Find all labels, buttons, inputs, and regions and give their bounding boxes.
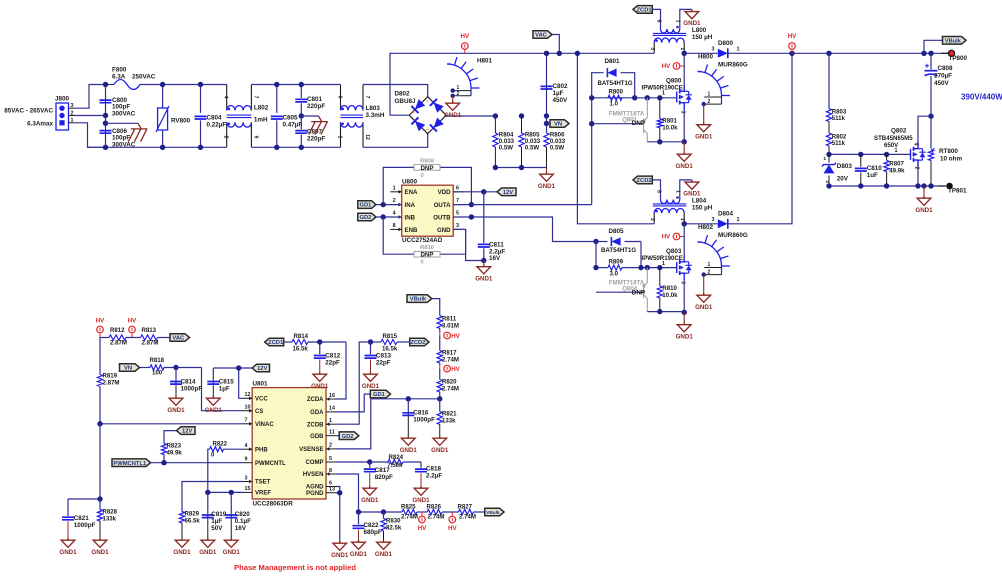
svg-text:16: 16 bbox=[329, 393, 335, 399]
svg-text:INB: INB bbox=[405, 215, 416, 222]
wire drain rail L804 to D804 bbox=[684, 223, 718, 225]
capacitor C800 bbox=[105, 85, 107, 99]
net flag GD1 input bbox=[358, 201, 376, 209]
svg-text:ZCDA: ZCDA bbox=[307, 397, 324, 403]
svg-text:1: 1 bbox=[737, 47, 740, 53]
pin stubs U801 left bbox=[243, 397, 252, 399]
inductor L804 main pins bbox=[653, 213, 655, 224]
resistor R809 bbox=[595, 242, 597, 268]
HV indicator VSENSE 2 bbox=[439, 365, 441, 369]
svg-text:220pF: 220pF bbox=[307, 103, 325, 110]
svg-text:12V: 12V bbox=[257, 366, 267, 372]
svg-text:3.01M: 3.01M bbox=[442, 323, 459, 330]
ground GND1 C818 bbox=[414, 486, 428, 495]
svg-text:C804: C804 bbox=[207, 115, 223, 122]
svg-text:GND1: GND1 bbox=[173, 549, 191, 556]
svg-text:9: 9 bbox=[252, 136, 258, 139]
svg-text:HV: HV bbox=[788, 33, 797, 40]
svg-text:8: 8 bbox=[329, 468, 332, 474]
svg-text:0.5W: 0.5W bbox=[525, 145, 539, 152]
pin stubs U800 right bbox=[453, 191, 464, 193]
svg-text:GND1: GND1 bbox=[444, 112, 462, 119]
svg-text:150 µH: 150 µH bbox=[692, 34, 713, 41]
HV indicator on output rail bbox=[791, 50, 793, 54]
svg-text:PGND: PGND bbox=[306, 491, 324, 497]
ground GND1 Q800 source bbox=[683, 142, 685, 152]
earth ground at C800/C806 node bbox=[106, 122, 139, 124]
svg-text:1: 1 bbox=[675, 20, 681, 23]
top rail L802 to L803 bbox=[251, 84, 340, 86]
svg-text:VN: VN bbox=[124, 366, 132, 372]
wire J800 pin2 to C800/C806 node bbox=[69, 115, 75, 117]
svg-text:50V: 50V bbox=[211, 525, 223, 532]
svg-text:GND1: GND1 bbox=[205, 407, 223, 414]
svg-text:H802: H802 bbox=[698, 224, 714, 231]
ground GND1 C813 bbox=[364, 372, 378, 381]
svg-text:1: 1 bbox=[737, 217, 740, 223]
svg-text:D801: D801 bbox=[604, 58, 620, 65]
svg-text:VCC: VCC bbox=[255, 397, 268, 403]
transistor Q804 (DNP) bbox=[596, 268, 647, 312]
wire ZCDB bbox=[336, 342, 371, 424]
wire source bus phase2 bbox=[647, 311, 684, 313]
svg-text:1µF: 1µF bbox=[553, 90, 564, 97]
capacitor C813 bbox=[370, 342, 372, 354]
svg-text:UCC28063DR: UCC28063DR bbox=[253, 500, 294, 507]
capacitor C816 bbox=[407, 399, 409, 411]
svg-text:R810: R810 bbox=[662, 285, 677, 292]
svg-text:VAC: VAC bbox=[535, 33, 548, 39]
ground GND1 C815 bbox=[207, 396, 221, 405]
svg-text:GND1: GND1 bbox=[676, 333, 694, 340]
svg-text:PWMCNTL: PWMCNTL bbox=[255, 461, 286, 467]
svg-text:VAC: VAC bbox=[172, 336, 185, 342]
svg-text:133k: 133k bbox=[442, 418, 456, 425]
gate driver U800 UCC27524AD bbox=[402, 185, 454, 236]
resistor R830 bbox=[383, 512, 385, 519]
svg-text:0: 0 bbox=[420, 260, 423, 266]
svg-text:7.50k: 7.50k bbox=[387, 462, 403, 469]
svg-text:650V: 650V bbox=[884, 142, 899, 149]
svg-text:0.22µF: 0.22µF bbox=[207, 122, 227, 129]
svg-text:2: 2 bbox=[393, 198, 396, 204]
bridge rectifier D802 bbox=[409, 97, 446, 134]
svg-text:1uF: 1uF bbox=[867, 172, 878, 179]
HV indicator VSENSE 1 bbox=[439, 332, 441, 336]
net flag PWMCNTL1 bbox=[112, 459, 151, 467]
svg-text:C815: C815 bbox=[219, 379, 235, 386]
svg-text:GND1: GND1 bbox=[167, 407, 185, 414]
resistor R811 bbox=[437, 316, 442, 329]
svg-text:5: 5 bbox=[456, 211, 459, 217]
svg-text:GND1: GND1 bbox=[538, 183, 556, 190]
inductor L802 bbox=[226, 85, 228, 111]
inductor L804 core bbox=[653, 204, 687, 206]
svg-text:F800: F800 bbox=[112, 67, 127, 74]
svg-text:C805: C805 bbox=[283, 115, 299, 122]
HV indicator at Q800 drain bbox=[673, 63, 680, 70]
inductor L800 main winding bbox=[654, 38, 684, 43]
svg-text:R814: R814 bbox=[294, 333, 309, 340]
svg-text:R823: R823 bbox=[167, 443, 182, 450]
gate drive net OUTB into D805/R809 bbox=[593, 239, 598, 244]
svg-text:450V: 450V bbox=[934, 80, 950, 87]
svg-text:OUTA: OUTA bbox=[434, 202, 451, 209]
wire J800 pin3 to top rail bbox=[69, 107, 75, 109]
ground GND1 U800 bbox=[483, 261, 485, 265]
capacitor C805 bbox=[276, 85, 278, 113]
svg-text:VDD: VDD bbox=[438, 189, 451, 196]
resistor R826 bbox=[427, 509, 442, 514]
svg-text:R824: R824 bbox=[389, 454, 404, 461]
capacitor C822 bbox=[358, 512, 360, 524]
svg-text:GND: GND bbox=[437, 227, 451, 234]
svg-text:22pF: 22pF bbox=[325, 360, 340, 367]
diode D805 BAT54HT1G bbox=[596, 241, 608, 243]
wire HV divider down to R828 bbox=[99, 424, 101, 499]
svg-text:VN: VN bbox=[554, 122, 562, 128]
wire Q800 source to ground bbox=[683, 109, 685, 142]
ground GND1 C822 bbox=[352, 540, 366, 549]
svg-text:HV: HV bbox=[128, 318, 137, 325]
pin stubs U800 left bbox=[390, 191, 401, 193]
svg-text:2: 2 bbox=[223, 136, 229, 139]
resistor R820 bbox=[439, 369, 441, 380]
svg-text:49.9k: 49.9k bbox=[889, 167, 905, 174]
ground GND1 C821 bbox=[61, 538, 75, 547]
svg-text:U800: U800 bbox=[402, 178, 418, 185]
varistor RV800 bbox=[162, 85, 164, 109]
resistor R821 bbox=[439, 399, 441, 412]
inductor L803 bbox=[340, 85, 342, 111]
output ground bus bbox=[829, 185, 945, 187]
heatsink H800 bbox=[698, 72, 722, 96]
svg-text:GND1: GND1 bbox=[475, 275, 493, 282]
svg-text:10.0k: 10.0k bbox=[662, 124, 678, 131]
svg-text:HV: HV bbox=[418, 525, 427, 532]
bottom rail to L802 bbox=[88, 146, 227, 148]
testpoint TP800 bbox=[941, 52, 948, 54]
inductor L804 sense winding ground pin bbox=[680, 180, 692, 200]
wire 12V to VCC and C815 bbox=[213, 368, 252, 398]
svg-text:12: 12 bbox=[364, 134, 370, 140]
svg-text:GND1: GND1 bbox=[676, 163, 694, 170]
ground GND1 R829 bbox=[175, 538, 189, 547]
ground GND1 heatsink H801 bbox=[452, 96, 454, 101]
svg-text:C802: C802 bbox=[553, 83, 569, 90]
svg-text:H800: H800 bbox=[698, 54, 714, 61]
wire HVSEN bbox=[336, 474, 359, 512]
ground GND1 heatsink H802 bbox=[703, 275, 705, 293]
svg-text:ZCD1: ZCD1 bbox=[268, 340, 284, 346]
ground GND1 R821 bbox=[433, 436, 447, 445]
resistor R810 bbox=[659, 268, 661, 286]
svg-text:10.0k: 10.0k bbox=[662, 292, 678, 299]
ground GND1 C819 bbox=[201, 538, 215, 547]
svg-text:R829: R829 bbox=[185, 511, 200, 518]
net flag 12V VCC bbox=[252, 364, 269, 372]
wire C808 to Q802 drain bbox=[928, 114, 933, 119]
svg-text:HV: HV bbox=[662, 234, 671, 241]
svg-text:12V: 12V bbox=[503, 190, 513, 196]
HV rail segment to L800 bbox=[465, 52, 654, 54]
svg-text:7: 7 bbox=[252, 96, 258, 99]
svg-text:6: 6 bbox=[456, 185, 459, 191]
net flag GD1 output bbox=[370, 390, 390, 398]
inductor L800 main pins bbox=[653, 43, 655, 54]
svg-text:2.2µF: 2.2µF bbox=[426, 473, 442, 480]
svg-text:DNP: DNP bbox=[632, 120, 645, 127]
svg-text:VBulk: VBulk bbox=[945, 38, 962, 44]
svg-text:16.5k: 16.5k bbox=[382, 346, 398, 353]
net flag ZCD2 bbox=[633, 176, 652, 184]
ground GND1 R830 bbox=[377, 540, 391, 549]
svg-text:~: ~ bbox=[426, 128, 429, 134]
svg-text:GD1: GD1 bbox=[373, 392, 386, 398]
svg-text:511k: 511k bbox=[832, 140, 846, 147]
resistor R805 bbox=[521, 116, 523, 133]
svg-text:1µF: 1µF bbox=[211, 518, 222, 525]
capacitor C806 bbox=[105, 116, 107, 129]
capacitor C820 bbox=[230, 492, 232, 513]
diode D804 MUR860G bbox=[718, 219, 728, 228]
HV indicator R812 divider bbox=[97, 326, 104, 333]
svg-text:GD2: GD2 bbox=[342, 434, 354, 440]
svg-text:D805: D805 bbox=[608, 228, 624, 235]
svg-text:D804: D804 bbox=[718, 211, 734, 218]
svg-text:133k: 133k bbox=[103, 516, 117, 523]
capacitor C821 bbox=[68, 498, 100, 500]
svg-text:1: 1 bbox=[393, 185, 396, 191]
MOSFET Q802 STB45N65M5 bbox=[911, 142, 926, 166]
resistor R812 bbox=[99, 333, 101, 337]
resistor R815 bbox=[371, 341, 382, 343]
svg-text:6: 6 bbox=[337, 96, 343, 99]
svg-text:6: 6 bbox=[656, 20, 662, 23]
svg-text:R816: R816 bbox=[420, 245, 435, 251]
svg-text:COMP: COMP bbox=[306, 460, 324, 466]
svg-text:2: 2 bbox=[708, 99, 711, 105]
svg-text:1: 1 bbox=[329, 418, 332, 424]
svg-text:BAT54HT1G: BAT54HT1G bbox=[598, 80, 633, 87]
ground GND1 heatsink H800 bbox=[703, 104, 705, 122]
svg-text:2: 2 bbox=[708, 270, 711, 276]
resistor R825 bbox=[402, 509, 417, 514]
svg-text:L803: L803 bbox=[366, 105, 381, 112]
svg-text:66.5k: 66.5k bbox=[185, 518, 201, 525]
heatsink H801 pins bbox=[470, 88, 472, 96]
wire Q803 source to ground bbox=[683, 280, 685, 313]
net flag VAC bottom bbox=[170, 334, 190, 342]
svg-text:0.5W: 0.5W bbox=[499, 145, 513, 152]
svg-text:C818: C818 bbox=[426, 466, 442, 473]
resistor R813 bbox=[132, 337, 141, 339]
svg-text:TSET: TSET bbox=[255, 480, 271, 486]
inductor L800 sense winding ground pin bbox=[680, 9, 692, 29]
svg-text:2: 2 bbox=[457, 91, 460, 97]
svg-text:R828: R828 bbox=[103, 509, 118, 516]
svg-text:MUR860G: MUR860G bbox=[718, 62, 748, 69]
svg-text:GD2: GD2 bbox=[359, 215, 371, 221]
ground GND1 C812 bbox=[313, 372, 327, 381]
svg-text:HV: HV bbox=[96, 318, 105, 325]
net 12V at U800 VDD bbox=[453, 191, 497, 193]
net flag VBulk top bbox=[924, 40, 943, 53]
resistor R827 bbox=[459, 509, 474, 514]
capacitor C817 bbox=[369, 462, 371, 468]
svg-text:8: 8 bbox=[393, 223, 396, 229]
svg-text:1: 1 bbox=[679, 218, 685, 221]
svg-text:GND1: GND1 bbox=[375, 551, 393, 558]
wire VINAC line bbox=[100, 423, 243, 425]
wire phase2 output to HV rail riser bbox=[728, 53, 792, 224]
svg-text:300VAC: 300VAC bbox=[112, 141, 136, 148]
svg-text:1: 1 bbox=[675, 190, 681, 193]
svg-text:0.1µF: 0.1µF bbox=[235, 518, 251, 525]
diode D801 BAT54HT1G bbox=[592, 73, 635, 98]
svg-text:VBulk: VBulk bbox=[410, 297, 427, 303]
svg-text:150 µH: 150 µH bbox=[692, 204, 713, 211]
svg-text:R811: R811 bbox=[442, 316, 457, 323]
fuse F800 bbox=[114, 80, 140, 90]
svg-text:C820: C820 bbox=[235, 511, 251, 518]
svg-text:C819: C819 bbox=[211, 511, 227, 518]
svg-text:GDB: GDB bbox=[310, 434, 324, 440]
svg-text:GND1: GND1 bbox=[91, 549, 109, 556]
svg-text:4: 4 bbox=[245, 443, 248, 449]
svg-text:2.87M: 2.87M bbox=[142, 340, 159, 347]
heatsink H800 pins bbox=[721, 96, 723, 105]
svg-text:C821: C821 bbox=[74, 515, 90, 522]
gate bus Q802 bbox=[829, 153, 911, 155]
wire to CS pin bbox=[202, 368, 244, 411]
resistor R806 bbox=[544, 133, 549, 147]
svg-text:H801: H801 bbox=[477, 58, 493, 65]
svg-text:6: 6 bbox=[329, 480, 332, 486]
resistor R824 bbox=[370, 461, 388, 463]
resistor R819 bbox=[99, 338, 101, 375]
svg-text:1000pF: 1000pF bbox=[74, 522, 96, 529]
net flag 12V R823 bbox=[177, 427, 196, 435]
svg-text:U801: U801 bbox=[253, 381, 269, 388]
ground GND1 C817 bbox=[363, 486, 377, 495]
svg-text:STB45N65M5: STB45N65M5 bbox=[874, 135, 913, 142]
svg-text:1: 1 bbox=[662, 91, 665, 97]
svg-text:4: 4 bbox=[223, 96, 229, 99]
heatsink H802 pins bbox=[721, 266, 723, 275]
svg-text:R815: R815 bbox=[383, 333, 398, 340]
svg-text:16.5k: 16.5k bbox=[293, 346, 309, 353]
inductor L800 sense winding bbox=[661, 29, 680, 33]
wire U800 GND pin bbox=[453, 229, 484, 260]
svg-text:820pF: 820pF bbox=[375, 474, 393, 481]
svg-text:GND1: GND1 bbox=[350, 551, 368, 558]
diode D800 MUR860G bbox=[718, 49, 728, 58]
svg-text:R827: R827 bbox=[458, 504, 473, 511]
svg-text:13: 13 bbox=[329, 487, 335, 493]
svg-text:D800: D800 bbox=[718, 40, 734, 47]
svg-text:L802: L802 bbox=[254, 105, 269, 112]
svg-text:R813: R813 bbox=[142, 327, 157, 334]
svg-text:HV: HV bbox=[662, 63, 671, 70]
svg-text:4: 4 bbox=[393, 211, 396, 217]
svg-text:R817: R817 bbox=[442, 350, 457, 357]
inductor L804 main winding bbox=[654, 209, 684, 214]
svg-text:1000pF: 1000pF bbox=[413, 417, 435, 424]
svg-text:ZCD1: ZCD1 bbox=[637, 8, 653, 14]
svg-text:82.5k: 82.5k bbox=[386, 525, 402, 532]
svg-text:R808: R808 bbox=[420, 158, 435, 164]
svg-text:TP800: TP800 bbox=[949, 55, 968, 62]
wire bottom rail into bridge AC2 bbox=[363, 134, 428, 148]
svg-text:HV: HV bbox=[451, 366, 460, 373]
VSENSE bus bbox=[371, 398, 440, 400]
svg-text:DNP: DNP bbox=[420, 252, 433, 259]
ground GND1 Q803 source bbox=[683, 312, 685, 322]
svg-text:0: 0 bbox=[420, 173, 423, 179]
svg-text:49.9k: 49.9k bbox=[167, 450, 183, 457]
resistor R800 bbox=[608, 95, 622, 100]
net flag GD2 input bbox=[358, 213, 376, 221]
svg-text:220pF: 220pF bbox=[307, 135, 325, 142]
wire source bus bbox=[647, 141, 684, 143]
ground GND1 C814 bbox=[169, 396, 183, 405]
capacitor C801 bbox=[300, 85, 302, 98]
svg-text:R830: R830 bbox=[386, 518, 401, 525]
svg-text:L800: L800 bbox=[692, 27, 707, 34]
svg-text:22pF: 22pF bbox=[376, 360, 391, 367]
heatsink H802 bbox=[698, 242, 722, 266]
svg-text:R826: R826 bbox=[427, 504, 442, 511]
svg-text:ZCDB: ZCDB bbox=[307, 422, 324, 428]
svg-text:R800: R800 bbox=[609, 89, 624, 96]
ground GND1 C816 bbox=[402, 436, 416, 445]
connector J800 bbox=[56, 103, 69, 130]
svg-text:14: 14 bbox=[329, 406, 335, 412]
resistor R823 bbox=[164, 431, 177, 444]
ground GND1 output bbox=[923, 186, 925, 196]
svg-text:9: 9 bbox=[245, 457, 248, 463]
inductor L800 core bbox=[653, 33, 687, 35]
svg-text:OUTB: OUTB bbox=[433, 215, 451, 222]
earth ground at C801/C807 node bbox=[301, 115, 318, 117]
svg-text:100: 100 bbox=[152, 370, 163, 377]
svg-text:PWMCNTL1: PWMCNTL1 bbox=[113, 461, 147, 467]
svg-text:GBU8J: GBU8J bbox=[395, 98, 416, 105]
svg-text:1: 1 bbox=[337, 136, 343, 139]
svg-text:C814: C814 bbox=[181, 379, 197, 386]
svg-text:2.87M: 2.87M bbox=[110, 340, 127, 347]
svg-text:16V: 16V bbox=[235, 525, 247, 532]
svg-text:1.0: 1.0 bbox=[610, 101, 619, 108]
wire AGND PGND bbox=[336, 487, 340, 542]
svg-text:5: 5 bbox=[329, 456, 332, 462]
svg-text:12: 12 bbox=[245, 392, 251, 398]
ground GND1 C820 bbox=[224, 538, 238, 547]
svg-text:GND1: GND1 bbox=[331, 552, 349, 559]
capacitor C815 bbox=[212, 368, 214, 380]
testpoint TP801 bbox=[938, 185, 946, 187]
controller U801 UCC28063DR bbox=[252, 388, 326, 499]
svg-text:270µF: 270µF bbox=[934, 73, 952, 80]
svg-text:R825: R825 bbox=[401, 504, 416, 511]
svg-text:TP801: TP801 bbox=[948, 188, 967, 195]
svg-text:11: 11 bbox=[329, 430, 335, 436]
svg-text:6: 6 bbox=[656, 190, 662, 193]
svg-text:12V: 12V bbox=[182, 429, 192, 435]
svg-text:680pF: 680pF bbox=[364, 529, 382, 536]
svg-text:3: 3 bbox=[649, 47, 655, 50]
